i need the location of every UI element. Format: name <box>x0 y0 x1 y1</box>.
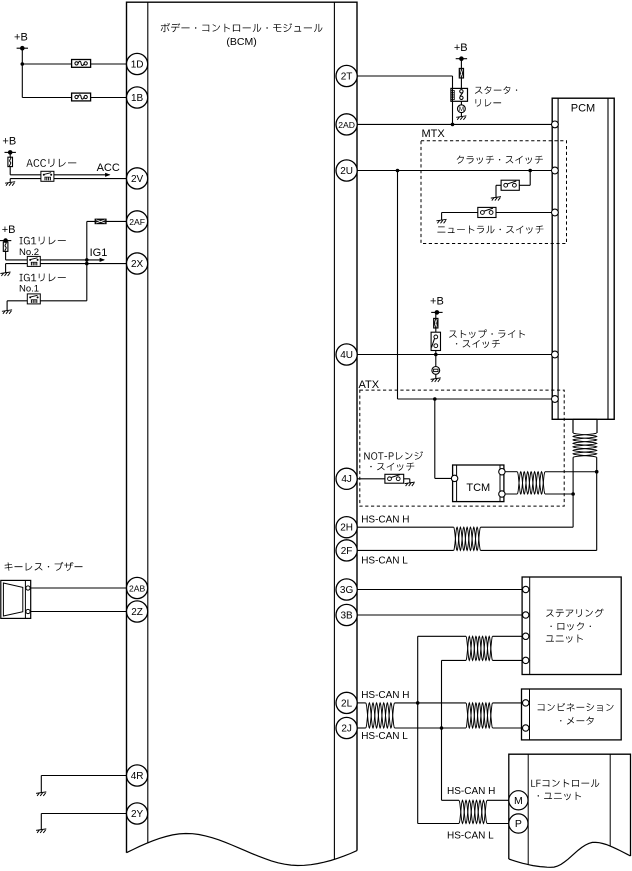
fuse on 1D wire <box>72 60 91 68</box>
node +B (ACC relay feed) <box>2 136 16 155</box>
node +B (IG1 relay feed) <box>0 224 15 243</box>
label ACC relay <box>26 159 76 167</box>
node +B (battery feed, top left) <box>14 32 28 51</box>
wire to 1B <box>22 97 126 99</box>
pin 2X (BCM) <box>127 253 148 274</box>
svg-text:2T: 2T <box>341 71 353 82</box>
pin TCM upper right <box>499 469 505 475</box>
pin 2L (BCM) <box>336 692 357 713</box>
node +B (stop light switch) <box>430 296 444 315</box>
svg-text:2U: 2U <box>340 166 353 177</box>
svg-text:HS-CAN H: HS-CAN H <box>361 515 409 526</box>
wire CAN-L to LF P pin <box>418 823 509 825</box>
pin PCM (4U wire) <box>552 351 559 358</box>
junction 2U branch <box>396 169 400 173</box>
wire 4R to ground <box>41 776 126 793</box>
pin combination meter 2 <box>523 725 529 731</box>
wire IG1 relay No.1 to 2AF vertical <box>40 300 87 302</box>
pin 3B (BCM) <box>336 604 357 625</box>
junction on 1D wire <box>21 62 25 66</box>
svg-text:2L: 2L <box>341 698 353 709</box>
twisted pair 2H/2F <box>454 527 481 550</box>
wire 3G to steering lock <box>357 589 522 591</box>
svg-text:PCM: PCM <box>571 103 595 115</box>
ground (2Y) <box>36 829 46 833</box>
wire branch to PCM lower pin <box>398 398 552 400</box>
wire TCM lower CAN <box>505 493 573 495</box>
motor M (starter) <box>458 105 466 113</box>
junction IG1 arrow wire <box>85 258 89 262</box>
wire 2AF with vertical to IG1 relays <box>87 221 127 300</box>
ground (ACC relay) <box>5 182 15 186</box>
wire to 1D <box>22 63 126 65</box>
wire IG1 relay No.2 coil to ground <box>6 264 28 273</box>
pin 1B (BCM) <box>127 87 148 108</box>
pin 2V (BCM) <box>127 168 148 189</box>
svg-text:M: M <box>459 106 464 113</box>
svg-text:HS-CAN H: HS-CAN H <box>361 690 409 701</box>
module combination meter box <box>522 689 622 740</box>
svg-text:4R: 4R <box>131 771 144 782</box>
module LF control unit box <box>509 754 631 867</box>
pin TCM left <box>451 475 457 481</box>
fuse (stop light) <box>434 318 439 328</box>
svg-text:3B: 3B <box>340 610 353 621</box>
pin 4R (BCM) <box>127 765 148 786</box>
pin PCM (ATX wire) <box>552 396 559 403</box>
pin 2AD (BCM) <box>336 114 357 135</box>
junction CAN-L at 2J <box>440 726 444 730</box>
svg-text:ACC: ACC <box>97 162 120 174</box>
twisted pair PCM CAN <box>573 433 597 457</box>
junction TCM upper to CAN-L <box>595 470 599 474</box>
ground (4R) <box>36 792 46 796</box>
wire junction down to TCM <box>435 399 452 478</box>
module BCM (body control module) box <box>127 2 358 865</box>
node +B (starter relay) <box>454 42 468 61</box>
svg-text:2F: 2F <box>341 546 353 557</box>
svg-text:No.1: No.1 <box>19 284 39 295</box>
pin P (LF control unit) <box>509 814 528 833</box>
svg-text:2AD: 2AD <box>338 120 355 130</box>
wire PCM CAN-L vertical to 2F <box>357 457 596 550</box>
junction TCM lower to CAN-H <box>571 492 575 496</box>
ground (NOT-P switch) <box>405 482 415 486</box>
svg-text:2H: 2H <box>340 523 353 534</box>
label neutral switch <box>437 226 543 234</box>
pin TCM lower right <box>499 491 505 497</box>
ground (IG1 relay No.2) <box>0 272 10 276</box>
twisted pair at 2L/2J <box>366 703 395 728</box>
wire 4U to PCM <box>357 354 551 356</box>
fuse on 1B wire <box>72 93 91 101</box>
svg-text:HS-CAN L: HS-CAN L <box>361 731 408 742</box>
wire fuse to stop light switch <box>435 328 437 332</box>
wire +B to stop fuse <box>435 312 437 318</box>
pin M (LF control unit) <box>509 791 528 810</box>
svg-text:2V: 2V <box>131 174 144 185</box>
wire +B vertical to 1D/1B <box>21 48 23 97</box>
wire clutch tap down to switch <box>519 171 530 186</box>
relay IG1 No.2 <box>27 256 40 266</box>
switch stop light <box>431 332 440 350</box>
label NOT-P range switch <box>364 451 423 471</box>
svg-text:(BCM): (BCM) <box>226 36 256 48</box>
pin 2AF (BCM) <box>127 211 148 232</box>
wire starter relay to motor <box>460 101 462 105</box>
module U2 PCM box <box>552 98 614 419</box>
junction stop light on 4U wire <box>434 353 438 357</box>
label IG1 <box>90 247 108 259</box>
fuse (starter relay) <box>459 68 464 78</box>
svg-text:+B: +B <box>430 296 444 308</box>
wire buzzer to 2AB <box>31 587 127 589</box>
svg-text:HS-CAN H: HS-CAN H <box>447 786 495 797</box>
twisted pair LF <box>459 800 487 823</box>
wire 2Y to ground <box>41 814 126 830</box>
lamp stop light <box>432 367 440 375</box>
label steering lock unit <box>546 609 604 643</box>
svg-text:+B: +B <box>454 42 468 54</box>
wire stop switch down to lamp <box>435 351 437 367</box>
wire neutral left to ground <box>441 213 443 220</box>
label ACC <box>97 162 120 174</box>
label MTX <box>422 128 446 140</box>
junction clutch switch tap <box>528 169 532 173</box>
pin PCM (2AD wire) <box>552 121 559 128</box>
wire NOT-P switch to ground <box>404 479 410 483</box>
junction TCM feed <box>433 397 437 401</box>
connector PCM bottom stub <box>573 419 597 433</box>
wire +B to starter fuse <box>460 59 462 69</box>
pin 2J (BCM) <box>336 717 357 738</box>
label stop light switch <box>449 329 525 348</box>
wire 2U to PCM <box>357 170 551 172</box>
twisted pair before meter <box>466 703 493 728</box>
pin 1D (BCM) <box>127 53 148 74</box>
svg-text:1D: 1D <box>131 59 144 70</box>
fuse (fusible link, ACC) <box>8 152 13 174</box>
wire fuse to starter relay <box>460 78 462 88</box>
pin steering 3 <box>523 633 529 639</box>
label keyless buzzer <box>5 562 83 571</box>
pin steering 2 <box>523 612 529 618</box>
wire 4J to NOT-P switch <box>357 478 385 480</box>
twisted pair steering <box>466 636 493 660</box>
pin 2U (BCM) <box>336 160 357 181</box>
svg-text:2AF: 2AF <box>129 217 145 227</box>
svg-text:IG1: IG1 <box>90 247 108 259</box>
ground (neutral switch) <box>436 219 446 223</box>
pin 2T (BCM) <box>336 65 357 86</box>
svg-text:3G: 3G <box>340 585 354 596</box>
wire TCM upper CAN <box>505 471 596 473</box>
wire steering CAN-H <box>418 636 523 823</box>
wire motor to ground <box>460 113 462 117</box>
label combination meter <box>538 703 614 725</box>
wire IG1 relay No.1 to ground <box>7 301 27 311</box>
ground (IG1 relay No.1) <box>2 310 12 314</box>
pin 2AB (BCM) <box>127 577 148 598</box>
wire 2AD to PCM <box>357 123 551 125</box>
svg-text:4U: 4U <box>340 350 353 361</box>
pin buzzer lower <box>26 609 30 613</box>
wire steering CAN-L <box>442 660 523 800</box>
label ATX <box>359 379 380 391</box>
pin 4U (BCM) <box>336 344 357 365</box>
svg-text:2Y: 2Y <box>131 809 144 820</box>
pin steering 4 <box>523 657 529 663</box>
label IG1 relay No.1 <box>19 274 66 295</box>
pin 2Y (BCM) <box>127 803 148 824</box>
label HS-CAN H (LF) <box>447 786 495 797</box>
wire ACC relay to 2V <box>54 178 127 180</box>
svg-text:4J: 4J <box>341 474 352 485</box>
wire IG1 output arrow <box>40 258 105 262</box>
svg-text:1B: 1B <box>131 93 144 104</box>
label HS-CAN H (2H) <box>361 515 409 526</box>
wire IG1 relay No.2 to 2X <box>40 263 127 265</box>
twisted pair TCM <box>517 472 545 494</box>
wire clutch switch to ground <box>496 185 501 197</box>
box MTX (dashed region) <box>421 141 567 244</box>
wire buzzer to 2Z <box>31 611 127 613</box>
fuse (fusible link, IG1) <box>3 241 8 260</box>
pin 4J (BCM) <box>336 468 357 489</box>
svg-text:HS-CAN L: HS-CAN L <box>361 556 408 567</box>
wire PCM CAN-H vertical to 2H <box>357 457 573 527</box>
switch neutral <box>478 207 496 217</box>
fuse on 2AF wire <box>95 219 106 224</box>
pin steering 1 <box>523 586 529 592</box>
relay ACC <box>41 171 54 181</box>
label starter relay <box>475 86 517 107</box>
junction CAN-H at 2L <box>416 701 420 705</box>
label (BCM) <box>226 36 256 48</box>
wire 3B to steering lock <box>357 614 522 616</box>
label HS-CAN L (2F) <box>361 556 408 567</box>
svg-text:+B: +B <box>2 136 16 148</box>
pin 2F (BCM) <box>336 540 357 561</box>
module U3 TCM box <box>453 465 504 502</box>
pin PCM (neutral wire) <box>552 209 559 216</box>
label HS-CAN H (2L) <box>361 690 409 701</box>
pin 2Z (BCM) <box>127 601 148 622</box>
svg-text:2AB: 2AB <box>129 583 146 593</box>
svg-text:ATX: ATX <box>359 379 380 391</box>
label TCM <box>466 482 490 494</box>
wire fuse to IG1 relay No.2 <box>6 259 28 261</box>
module steering lock unit box <box>522 577 621 675</box>
svg-text:MTX: MTX <box>422 128 446 140</box>
switch NOT-P range <box>385 474 404 483</box>
wire neutral switch to PCM <box>442 212 552 214</box>
svg-text:2J: 2J <box>341 723 352 734</box>
buzzer (keyless buzzer speaker) <box>1 580 31 618</box>
junction starter coil on 2AD wire <box>451 123 455 127</box>
wire 2U branch vertical <box>397 171 399 400</box>
ground (starter motor) <box>456 116 466 120</box>
label clutch switch <box>457 156 543 165</box>
label HS-CAN L (LF) <box>447 831 494 842</box>
ground (clutch switch) <box>491 197 501 201</box>
svg-text:+B: +B <box>14 32 28 44</box>
pin 3G (BCM) <box>336 579 357 600</box>
svg-text:HS-CAN L: HS-CAN L <box>447 831 494 842</box>
wire fuse to ACC relay contact <box>10 174 41 176</box>
svg-text:2X: 2X <box>131 259 144 270</box>
svg-text:P: P <box>515 818 522 830</box>
junction 2X wire <box>85 262 89 266</box>
svg-text:M: M <box>514 795 523 807</box>
pin 2H (BCM) <box>336 517 357 538</box>
label LF control unit <box>531 779 599 800</box>
svg-text:TCM: TCM <box>466 482 490 494</box>
wire ACC relay coil to ground <box>10 179 41 183</box>
label BCM title <box>161 23 323 32</box>
box ATX (dashed region) <box>360 390 564 506</box>
svg-text:No.2: No.2 <box>19 247 39 258</box>
wire 2L to combination meter <box>357 702 522 704</box>
wire ACC output arrow <box>54 173 111 177</box>
ground (stop light) <box>431 378 441 382</box>
label HS-CAN L (2J) <box>361 731 408 742</box>
svg-text:2Z: 2Z <box>131 607 143 618</box>
pin combination meter 1 <box>523 700 529 706</box>
wire CAN-H to LF M pin <box>442 799 509 801</box>
relay starter <box>451 88 468 101</box>
relay IG1 No.1 <box>27 294 40 304</box>
svg-text:+B: +B <box>2 224 16 236</box>
wire 2T to starter relay coil <box>357 76 452 124</box>
wire lamp to ground <box>435 374 437 378</box>
pin buzzer upper <box>26 586 30 590</box>
pin PCM (clutch wire) <box>552 167 559 174</box>
wire 2J to combination meter <box>357 727 522 729</box>
label IG1 relay No.2 <box>19 237 66 258</box>
label PCM <box>571 103 595 115</box>
switch clutch <box>501 180 519 190</box>
